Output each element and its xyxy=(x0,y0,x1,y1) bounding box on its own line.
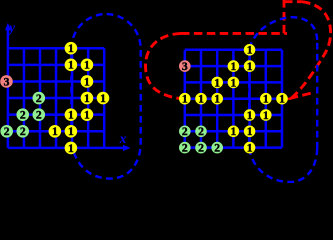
svg-text:1: 1 xyxy=(68,59,74,72)
note 1 R c3 r3 xyxy=(211,77,223,89)
svg-text:1: 1 xyxy=(263,109,269,122)
svg-text:2: 2 xyxy=(20,109,26,122)
note 1 L c5 r1 xyxy=(65,42,78,55)
svg-text:1: 1 xyxy=(231,125,237,138)
svg-text:1: 1 xyxy=(247,60,253,73)
note 1 L c4 r6 xyxy=(49,125,62,138)
note 1 L c5 r2 xyxy=(65,59,78,72)
svg-text:3: 3 xyxy=(182,60,188,73)
note 1 R c6 r4 xyxy=(260,93,272,105)
svg-text:2: 2 xyxy=(36,92,42,105)
svg-text:3: 3 xyxy=(4,75,10,88)
svg-text:1: 1 xyxy=(247,44,253,57)
note 1 R c5 r6 xyxy=(244,126,256,138)
svg-text:2: 2 xyxy=(36,109,42,122)
svg-text:1: 1 xyxy=(84,75,90,88)
blue dashed stadium (left pattern loop) xyxy=(71,14,140,179)
note 1 R c4 r3 xyxy=(228,77,240,89)
svg-text:1: 1 xyxy=(214,93,220,106)
note 2 L c1 r6 xyxy=(0,125,13,138)
note 3 R c1 r2 xyxy=(179,60,191,72)
svg-text:x: x xyxy=(119,131,127,146)
svg-text:1: 1 xyxy=(263,93,269,106)
note 1 R c2 r4 xyxy=(195,93,207,105)
svg-text:y: y xyxy=(7,20,16,35)
note 2 R c2 r6 xyxy=(195,126,207,138)
note 2 R c2 r7 xyxy=(195,142,207,154)
note 1 R c4 r2 xyxy=(228,60,240,72)
svg-text:1: 1 xyxy=(247,125,253,138)
svg-text:2: 2 xyxy=(182,142,188,155)
svg-text:2: 2 xyxy=(182,125,188,138)
note 2 R c1 r7 xyxy=(179,142,191,154)
svg-text:2: 2 xyxy=(198,142,204,155)
note 2 L c2 r6 xyxy=(16,125,29,138)
note 1 L c6 r3 xyxy=(81,75,94,88)
note 2 L c3 r4 xyxy=(33,92,46,105)
svg-text:1: 1 xyxy=(279,93,285,106)
note 1 L c6 r4 xyxy=(81,92,94,105)
svg-text:1: 1 xyxy=(68,109,74,122)
right fretboard grid xyxy=(185,50,282,148)
svg-text:1: 1 xyxy=(247,142,253,155)
note 1 R c5 r2 xyxy=(244,60,256,72)
note 1 L c6 r5 xyxy=(81,108,94,121)
svg-text:1: 1 xyxy=(231,76,237,89)
note 1 R c5 r7 xyxy=(244,142,256,154)
svg-text:2: 2 xyxy=(20,125,26,138)
svg-text:1: 1 xyxy=(68,42,74,55)
svg-text:1: 1 xyxy=(247,109,253,122)
svg-text:1: 1 xyxy=(100,92,106,105)
note 1 L c5 r6 xyxy=(65,125,78,138)
note 1 R c7 r4 xyxy=(276,93,288,105)
x axis arrow xyxy=(104,147,125,150)
note 1 R c6 r5 xyxy=(260,109,272,121)
svg-text:2: 2 xyxy=(4,125,10,138)
note 1 R c3 r4 xyxy=(211,93,223,105)
left fretboard grid xyxy=(8,48,104,148)
svg-text:2: 2 xyxy=(198,125,204,138)
note 3 L c1 r3 xyxy=(0,75,13,88)
note 1 L c6 r2 xyxy=(81,59,94,72)
red dashed region outline xyxy=(146,0,331,99)
svg-text:1: 1 xyxy=(198,93,204,106)
svg-text:1: 1 xyxy=(68,125,74,138)
note 2 L c3 r5 xyxy=(33,108,46,121)
svg-text:2: 2 xyxy=(214,142,220,155)
svg-text:1: 1 xyxy=(52,125,58,138)
blue dashed loop (right pattern loop) xyxy=(249,17,317,182)
note 1 R c5 r1 xyxy=(244,44,256,56)
svg-text:1: 1 xyxy=(68,142,74,155)
svg-text:1: 1 xyxy=(84,92,90,105)
note 1 R c4 r6 xyxy=(228,126,240,138)
svg-text:1: 1 xyxy=(84,59,90,72)
note 1 R c5 r5 xyxy=(244,109,256,121)
note 1 L c5 r7 xyxy=(65,142,78,155)
note 1 L c5 r5 xyxy=(65,108,78,121)
note 2 R c3 r7 xyxy=(211,142,223,154)
svg-text:1: 1 xyxy=(231,60,237,73)
red dashed bottom edge (hidden under grid row) xyxy=(184,98,291,100)
note 2 L c2 r5 xyxy=(16,108,29,121)
svg-text:1: 1 xyxy=(214,76,220,89)
note 2 R c1 r6 xyxy=(179,126,191,138)
svg-text:1: 1 xyxy=(182,93,188,106)
svg-text:1: 1 xyxy=(84,109,90,122)
y axis arrow xyxy=(7,29,10,48)
note 1 L c7 r4 xyxy=(97,92,110,105)
note 1 R c1 r4 xyxy=(179,93,191,105)
